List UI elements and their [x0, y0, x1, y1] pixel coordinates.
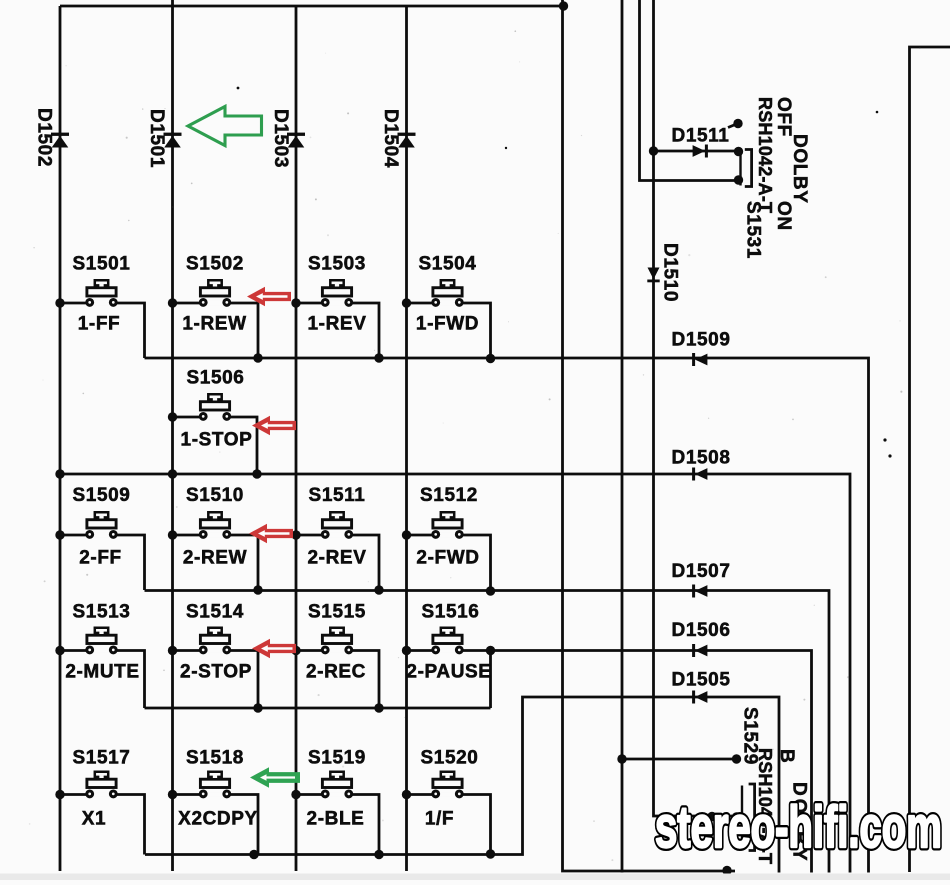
- svg-text:D1507: D1507: [672, 561, 731, 582]
- svg-text:2-PAUSE: 2-PAUSE: [406, 662, 491, 683]
- svg-text:1-FF: 1-FF: [78, 314, 121, 335]
- svg-text:S1514: S1514: [186, 602, 244, 623]
- svg-text:S1519: S1519: [308, 748, 366, 769]
- svg-text:S1513: S1513: [73, 602, 131, 623]
- svg-text:D1508: D1508: [672, 448, 731, 469]
- svg-text:1-REV: 1-REV: [308, 314, 367, 335]
- svg-text:B: B: [776, 749, 797, 763]
- svg-text:D1505: D1505: [672, 670, 731, 691]
- svg-text:D1502: D1502: [34, 108, 55, 167]
- svg-text:S1517: S1517: [73, 748, 131, 769]
- svg-text:S1510: S1510: [186, 485, 244, 506]
- svg-text:S1512: S1512: [420, 485, 478, 506]
- svg-text:S1515: S1515: [308, 602, 366, 623]
- svg-text:S1509: S1509: [73, 485, 131, 506]
- svg-text:D1504: D1504: [380, 109, 401, 168]
- svg-text:2-STOP: 2-STOP: [180, 662, 252, 683]
- svg-text:S1504: S1504: [419, 254, 477, 275]
- svg-text:2-REC: 2-REC: [306, 662, 366, 683]
- svg-text:S1520: S1520: [421, 748, 479, 769]
- svg-text:S1506: S1506: [187, 368, 245, 389]
- svg-text:2-REV: 2-REV: [308, 548, 367, 569]
- svg-text:D1510: D1510: [660, 243, 681, 302]
- svg-text:2-REW: 2-REW: [183, 548, 247, 569]
- svg-text:2-BLE: 2-BLE: [307, 809, 365, 830]
- svg-text:1-REW: 1-REW: [182, 314, 246, 335]
- svg-text:2-MUTE: 2-MUTE: [65, 662, 139, 683]
- svg-text:D1501: D1501: [146, 109, 167, 168]
- svg-text:D1503: D1503: [270, 109, 291, 168]
- svg-text:1-FWD: 1-FWD: [416, 314, 479, 335]
- svg-text:stereo-hifi.com: stereo-hifi.com: [655, 795, 942, 860]
- svg-text:S1531: S1531: [743, 201, 764, 259]
- svg-text:D1506: D1506: [672, 620, 731, 641]
- svg-text:X1: X1: [82, 809, 106, 830]
- svg-text:D1509: D1509: [672, 330, 731, 351]
- svg-text:DOLBY: DOLBY: [789, 134, 810, 204]
- svg-text:S1518: S1518: [186, 748, 244, 769]
- svg-text:S1511: S1511: [309, 485, 366, 506]
- svg-text:2-FF: 2-FF: [79, 548, 122, 569]
- svg-text:1/F: 1/F: [425, 809, 454, 830]
- svg-text:S1516: S1516: [422, 602, 480, 623]
- svg-text:1-STOP: 1-STOP: [181, 430, 253, 451]
- svg-text:S1501: S1501: [73, 254, 131, 275]
- svg-text:2-FWD: 2-FWD: [416, 548, 479, 569]
- svg-text:RSH1042-A-T: RSH1042-A-T: [755, 97, 775, 213]
- svg-text:ON: ON: [773, 201, 794, 231]
- svg-text:OFF: OFF: [773, 97, 794, 137]
- svg-text:S1503: S1503: [308, 254, 366, 275]
- svg-text:X2CDPY: X2CDPY: [178, 809, 258, 830]
- svg-text:S1502: S1502: [186, 254, 244, 275]
- svg-text:D1511: D1511: [672, 126, 730, 147]
